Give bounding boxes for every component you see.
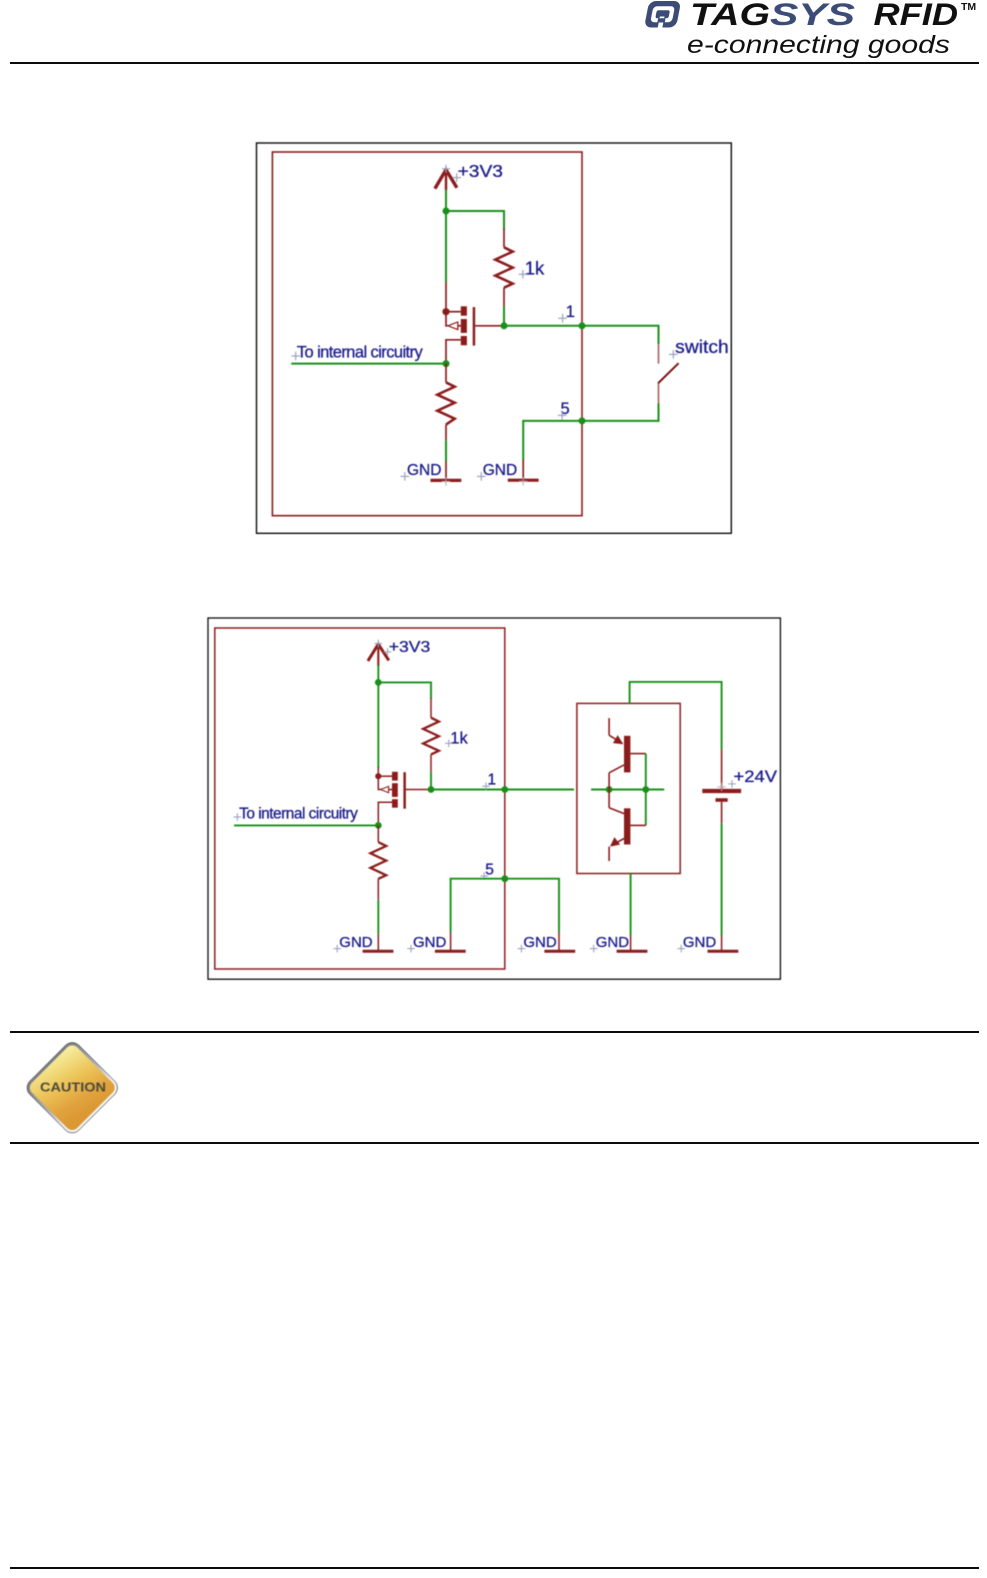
wire to resistor R3 xyxy=(378,682,431,698)
T1 collector pin xyxy=(608,773,610,790)
Q1 gate bar xyxy=(473,307,476,346)
svg-text:1k: 1k xyxy=(525,258,545,279)
T1 collector diagonal xyxy=(609,765,624,773)
ground GND2 s2 bar xyxy=(435,950,466,953)
Q2 source link xyxy=(378,775,392,777)
T2 base stub xyxy=(630,824,645,826)
footer rule xyxy=(10,1567,979,1569)
battery plate positive xyxy=(702,789,741,793)
wire base vertical green xyxy=(645,754,647,826)
wire to internal circuitry xyxy=(291,363,446,365)
resistor R1 pin top xyxy=(503,229,505,248)
resistor R4 pin bottom xyxy=(377,879,379,900)
resistor R4 body xyxy=(370,842,386,879)
resistor R2 body xyxy=(437,382,454,424)
resistor R3 pin top xyxy=(430,698,432,718)
ground GND1 s2 pin xyxy=(377,934,379,952)
origin cross GND5 s2 xyxy=(677,945,685,953)
svg-text:switch: switch xyxy=(675,337,729,357)
origin cross GND right bar xyxy=(519,477,527,485)
logo icon Q xyxy=(644,1,681,28)
Q1 bulk arrow xyxy=(448,322,458,330)
supply +3V3 symbol xyxy=(435,170,457,190)
origin cross at switch xyxy=(669,350,678,359)
junction at 3V3 node xyxy=(443,208,450,215)
wire source branch xyxy=(445,211,447,282)
svg-text:GND: GND xyxy=(596,934,630,951)
transistor Q1 p-mosfet xyxy=(442,282,501,364)
Q2 bulk arrow xyxy=(381,786,389,792)
ground GND right bar xyxy=(508,479,539,482)
Q1 source pin xyxy=(445,282,447,312)
resistor R2 pin top xyxy=(445,364,447,383)
wire node5 right leg s2 xyxy=(505,879,559,932)
junction at internal circuitry node xyxy=(443,360,450,367)
resistor R1 pin bottom xyxy=(503,288,505,306)
schematics xyxy=(0,0,987,1100)
svg-text:1k: 1k xyxy=(450,730,468,748)
origin cross pin1 s2 xyxy=(482,782,490,790)
origin cross at pin5 xyxy=(558,411,567,420)
T2 base bar xyxy=(624,808,630,844)
ground GND3 s2 bar xyxy=(544,950,575,953)
Q2 bulk stem xyxy=(378,776,380,789)
Q1 bulk stem xyxy=(446,312,448,326)
svg-text:To internal circuitry: To internal circuitry xyxy=(297,344,424,362)
switch pin bottom xyxy=(658,383,660,403)
svg-text:+3V3: +3V3 xyxy=(458,161,503,181)
resistor R3 (1k) body xyxy=(423,718,439,755)
T1 emitter arrow xyxy=(613,735,623,744)
T2 collector pin xyxy=(608,790,610,808)
ground GND1 s2 bar xyxy=(363,950,394,953)
ground GND right pin xyxy=(522,460,524,480)
T2 collector diagonal xyxy=(609,808,624,814)
caution icon xyxy=(0,1030,140,1160)
transistor T2 (bottom) xyxy=(609,790,646,862)
T1 emitter pin xyxy=(608,718,610,735)
svg-text:CAUTION: CAUTION xyxy=(40,1081,106,1095)
frame: schematic 1 outer border xyxy=(257,143,732,533)
Q1 drain link xyxy=(446,340,461,364)
ground GND4 s2 pin xyxy=(630,935,632,951)
switch S1 xyxy=(658,344,679,403)
origin cross GND right xyxy=(477,472,486,481)
wire node1 to switch xyxy=(582,326,659,345)
switch blade xyxy=(658,363,679,383)
svg-text:+3V3: +3V3 xyxy=(389,639,431,656)
Q2 source pin xyxy=(377,767,379,776)
caution top rule xyxy=(10,1031,979,1033)
ground GND2 s2 pin xyxy=(450,932,452,951)
ground GND5 s2 bar xyxy=(708,950,739,953)
origin cross GND3 s2 xyxy=(518,945,526,953)
svg-text:GND: GND xyxy=(683,934,717,951)
Q1 bulk junction dot xyxy=(442,308,449,315)
svg-text:GND: GND xyxy=(407,462,441,479)
module box schematic 2 xyxy=(215,628,505,969)
svg-text:1: 1 xyxy=(566,303,575,321)
origin cross GND4 s2 xyxy=(590,945,598,953)
wire optobox bottom to gnd xyxy=(630,874,632,936)
Q2 bulk link xyxy=(389,789,392,791)
wire node1 to optobox xyxy=(505,789,574,791)
junction left inside optobox xyxy=(606,786,613,793)
wire optobox top xyxy=(630,682,722,750)
Q2 channel pads xyxy=(392,772,398,781)
svg-text:GND: GND xyxy=(483,462,517,479)
optocoupler box U1 xyxy=(577,703,680,873)
svg-text:GND: GND xyxy=(413,934,447,951)
battery bottom pin xyxy=(721,802,723,824)
origin cross GND1 s2 xyxy=(333,945,341,953)
wire node5 left leg s2 xyxy=(451,879,505,932)
Q1 gate pin xyxy=(475,325,501,327)
wire R3 to node1 s2 xyxy=(430,772,432,790)
resistor R1 (1k) body xyxy=(495,247,512,287)
origin cross at To internal circuitry xyxy=(291,352,300,361)
transistor Q2 p-mosfet xyxy=(375,767,431,825)
origin cross at pin1 xyxy=(558,314,567,323)
header rule xyxy=(10,62,979,64)
Q1 bulk link xyxy=(458,325,461,327)
junction node5 on box edge xyxy=(579,417,586,424)
Q2 bulk junction dot xyxy=(375,773,381,779)
T1 base bar xyxy=(624,736,630,773)
svg-text:GND: GND xyxy=(523,934,557,951)
Q2 gate bar xyxy=(403,772,406,809)
junction node1 at gate xyxy=(501,322,508,329)
wire node 1 xyxy=(504,325,582,327)
origin cross pin5 s2 xyxy=(480,872,488,880)
origin cross To internal circuitry s2 xyxy=(234,813,242,821)
resistor R4 pin top xyxy=(377,825,379,842)
junction 3V3 node s2 xyxy=(375,679,382,686)
transistor T1 (top) xyxy=(609,718,646,789)
battery top pin xyxy=(721,750,723,789)
T1 emitter diagonal xyxy=(609,735,622,743)
origin cross GND2 s2 xyxy=(407,945,415,953)
wire R4 to gnd xyxy=(377,900,379,934)
Q2 drain link xyxy=(378,802,392,825)
T2 emitter diagonal xyxy=(612,839,624,846)
origin cross at +3V3 xyxy=(442,165,461,182)
junction node1 on box edge xyxy=(579,322,586,329)
module box (dashed region) schematic 1 xyxy=(272,152,582,516)
svg-text:+24V: +24V xyxy=(734,768,778,786)
junction node1 at gate s2 xyxy=(428,786,435,793)
wire R1 bottom to node 1 xyxy=(503,306,505,326)
ground GND4 s2 bar xyxy=(617,950,648,953)
battery B1 +24V xyxy=(702,750,741,824)
wire to resistor R1 top xyxy=(446,211,504,230)
frame: schematic 2 outer border xyxy=(208,618,780,979)
origin cross 1k s2 xyxy=(445,740,453,748)
supply +3V3 symbol s2 xyxy=(368,644,389,666)
wire node1 s2 xyxy=(431,789,505,791)
wire node5 to gnd xyxy=(523,421,582,461)
wire right stub inside optobox xyxy=(646,789,664,791)
Q1 source link xyxy=(446,311,461,313)
resistor R2 pin bottom xyxy=(445,425,447,441)
junction node1 on box edge s2 xyxy=(501,786,508,793)
battery plate negative xyxy=(716,798,728,802)
ground GND left bar xyxy=(431,479,462,482)
ground GND left pin xyxy=(445,462,447,481)
ground GND3 s2 pin xyxy=(558,932,560,951)
wire between junctions optobox xyxy=(609,789,646,791)
origin cross at +3V3 s2 xyxy=(375,640,392,656)
Q2 gate pin xyxy=(406,789,431,791)
wire 3V3 stem s2 xyxy=(377,665,379,682)
svg-text:To internal circuitry: To internal circuitry xyxy=(239,806,358,823)
wire source branch s2 xyxy=(377,682,379,768)
wire R2 to gnd xyxy=(445,440,447,461)
junction node5 s2 xyxy=(501,875,508,882)
wire switch to node 5 xyxy=(582,403,659,421)
ground GND5 s2 pin xyxy=(721,936,723,952)
origin cross +24V xyxy=(728,780,736,788)
T2 emitter pin xyxy=(608,847,610,861)
Q1 channel pads xyxy=(461,306,467,315)
header logo xyxy=(0,0,987,60)
wire 3V3 stem xyxy=(445,190,447,212)
T2 emitter arrow xyxy=(610,837,620,847)
svg-text:GND: GND xyxy=(339,934,373,951)
junction internal circuitry node s2 xyxy=(375,822,382,829)
caution bottom rule xyxy=(10,1142,979,1144)
origin cross GND left xyxy=(401,472,410,481)
resistor R3 pin bottom xyxy=(430,754,432,771)
junction right inside optobox xyxy=(642,786,649,793)
switch pin top xyxy=(658,344,660,363)
origin cross battery center xyxy=(717,783,725,791)
wire to internal circuitry s2 xyxy=(234,824,378,826)
wire node1 inside optobox xyxy=(591,789,609,791)
T1 base stub xyxy=(630,753,645,755)
wire battery to gnd xyxy=(721,823,723,935)
origin cross GND left bar xyxy=(442,477,450,485)
origin cross at 1k xyxy=(519,270,528,279)
